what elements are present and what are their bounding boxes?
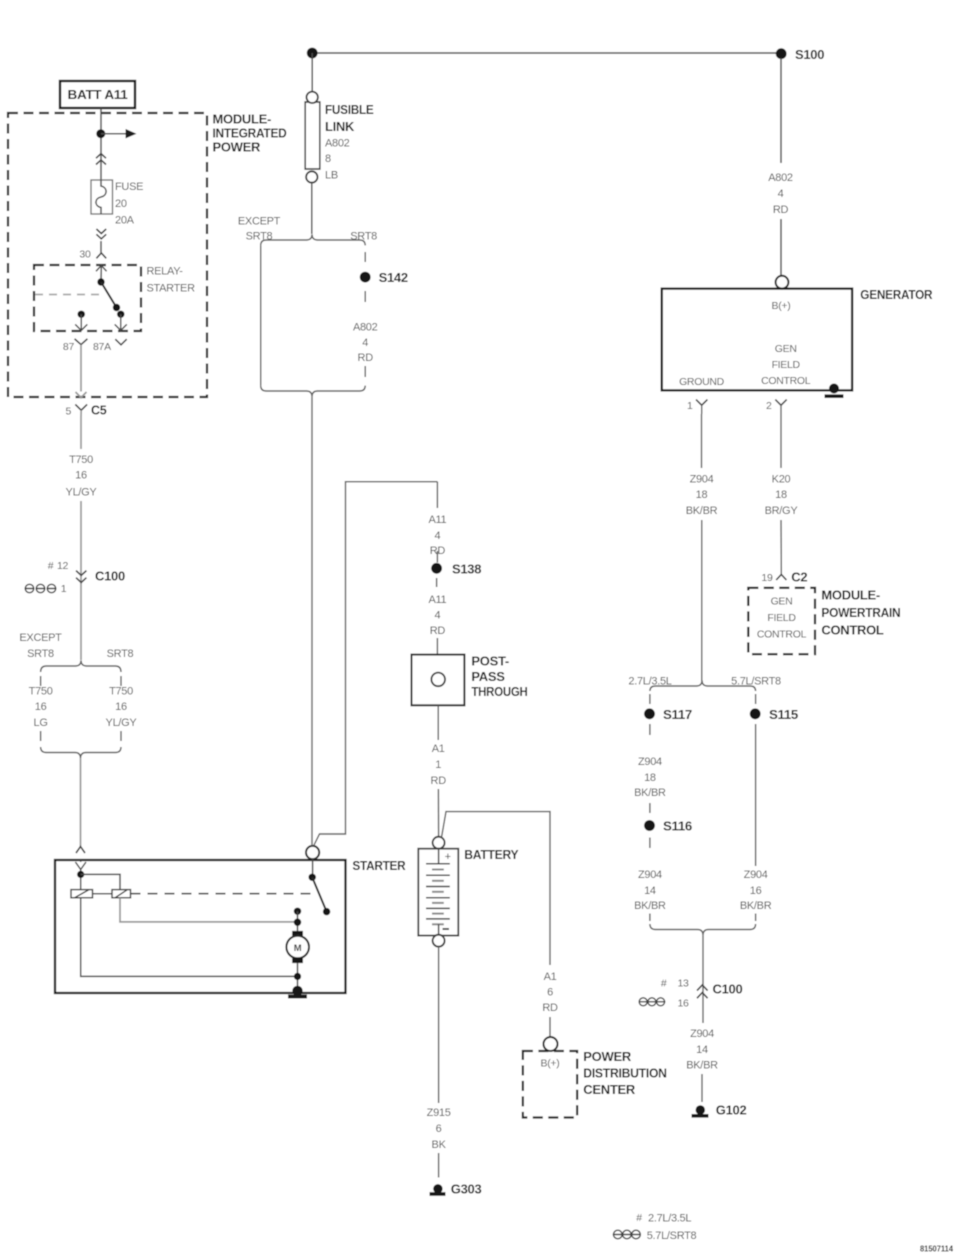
splice S142	[360, 252, 408, 302]
wire Z904 14 BK/BR (left)	[634, 869, 666, 921]
label MODULE-POWERTRAIN CONTROL	[821, 588, 900, 638]
marker ooo pin 16	[639, 998, 689, 1010]
wire A1 1 RD	[431, 705, 447, 836]
label POST-PASS THROUGH	[471, 653, 527, 699]
svg-text:B(+): B(+)	[772, 300, 791, 312]
svg-text:4: 4	[362, 337, 368, 349]
wire: BATT A11 down to fuse	[100, 108, 102, 180]
svg-text:LINK: LINK	[325, 119, 355, 134]
power distribution center dashed box	[523, 1051, 577, 1118]
svg-text:A802: A802	[325, 138, 350, 150]
svg-text:DISTRIBUTION: DISTRIBUTION	[583, 1066, 666, 1081]
svg-text:G303: G303	[451, 1181, 482, 1196]
svg-text:LG: LG	[34, 717, 48, 729]
wire K20 18 BR/GY	[765, 414, 799, 574]
starter switch	[309, 859, 331, 915]
svg-text:A11: A11	[428, 594, 446, 606]
relay contact 87	[75, 311, 87, 331]
label MODULE-INTEGRATED POWER	[213, 112, 287, 155]
label FUSIBLE LINK A802 8 LB	[325, 102, 374, 182]
svg-text:81507114: 81507114	[920, 1244, 953, 1254]
svg-text:6: 6	[547, 987, 553, 999]
wire: battery branch elbow to starter B+	[314, 482, 438, 846]
svg-text:GEN: GEN	[775, 343, 797, 355]
battery box	[418, 849, 458, 936]
svg-text:POST-: POST-	[471, 653, 509, 668]
svg-text:S117: S117	[663, 707, 692, 722]
svg-text:Z904: Z904	[638, 756, 662, 768]
wire: left branch (except SRT8)	[260, 245, 262, 385]
svg-text:BR/GY: BR/GY	[765, 505, 799, 517]
svg-text:Z904: Z904	[690, 474, 714, 486]
svg-text:12: 12	[57, 560, 69, 572]
label 5.7L/SRT8 (right branch)	[731, 676, 781, 688]
svg-text:GROUND: GROUND	[679, 376, 725, 388]
svg-text:20: 20	[115, 198, 127, 210]
svg-text:30: 30	[79, 249, 91, 261]
svg-text:S116: S116	[663, 819, 692, 834]
splice S138	[431, 561, 481, 587]
svg-text:#: #	[661, 978, 667, 990]
module-integrated power dashed box	[8, 113, 207, 397]
svg-text:BK/BR: BK/BR	[686, 505, 718, 517]
svg-text:Z904: Z904	[638, 869, 662, 881]
brace: merge branches	[41, 747, 121, 758]
pin 1 with fork	[687, 400, 707, 414]
svg-text:K20: K20	[772, 474, 791, 486]
motor M	[286, 931, 309, 963]
pin 30 with connector fork	[79, 241, 106, 261]
wire: junction to second winding	[81, 874, 120, 889]
svg-text:#: #	[636, 1212, 642, 1224]
label RELAY-STARTER	[147, 266, 196, 295]
label EXCEPT SRT8 (left)	[238, 216, 281, 243]
svg-text:1: 1	[687, 400, 693, 412]
wire: long feed to starter B+	[311, 397, 313, 846]
wire T750 16 LG (left branch)	[29, 676, 53, 741]
part number	[920, 1244, 953, 1254]
svg-text:18: 18	[775, 489, 787, 501]
relay switch	[96, 266, 120, 312]
brace: merge grounds	[650, 924, 756, 935]
svg-text:14: 14	[696, 1044, 708, 1056]
wire: 87 down to C5 (gray)	[76, 355, 87, 398]
svg-text:SRT8: SRT8	[27, 648, 54, 660]
svg-text:C2: C2	[791, 570, 807, 585]
generator internal ground	[825, 384, 844, 397]
brace: split except-SRT8 / SRT8	[261, 234, 366, 245]
splice S116	[644, 819, 692, 848]
svg-text:5: 5	[65, 406, 71, 418]
svg-text:13: 13	[677, 978, 689, 990]
splice S100	[776, 47, 824, 62]
brace: merge to starter feed	[261, 386, 366, 397]
svg-text:T750: T750	[109, 686, 133, 698]
svg-text:BK/BR: BK/BR	[634, 787, 666, 799]
PDC B+ terminal	[544, 1037, 558, 1051]
svg-text:+: +	[445, 851, 451, 863]
svg-text:19: 19	[761, 572, 773, 584]
connector C2 pin 19	[761, 570, 807, 585]
svg-text:S100: S100	[795, 47, 824, 62]
svg-text:C100: C100	[95, 569, 125, 584]
relay contact 87A	[115, 311, 127, 331]
label GENERATOR	[860, 287, 933, 302]
wire: battery positive to PDC (A1 6 RD)	[442, 812, 558, 1037]
svg-text:CONTROL: CONTROL	[821, 623, 884, 638]
node: junction with feed arrow	[96, 129, 136, 138]
wire T750 16 YL/GY (right branch)	[106, 676, 138, 741]
svg-text:INTEGRATED: INTEGRATED	[213, 126, 287, 141]
svg-text:S142: S142	[379, 270, 408, 285]
svg-text:1: 1	[435, 759, 441, 771]
label SRT8 (right)	[350, 231, 377, 243]
svg-text:87A: 87A	[93, 341, 111, 353]
svg-text:A1: A1	[544, 971, 557, 983]
starter box	[55, 858, 406, 993]
pin 87 label with fork	[63, 339, 87, 355]
svg-text:6: 6	[436, 1123, 442, 1135]
battery negative terminal	[433, 935, 445, 947]
node: junction above fusible link	[307, 48, 318, 59]
svg-text:GEN: GEN	[771, 596, 793, 608]
svg-text:16: 16	[35, 701, 47, 713]
in-line connector chevrons above fuse	[96, 154, 106, 165]
connector C100 with pins 13/16	[661, 978, 743, 999]
svg-text:Z904: Z904	[690, 1028, 714, 1040]
svg-text:M: M	[294, 943, 302, 954]
svg-text:A1: A1	[432, 743, 445, 755]
svg-text:1: 1	[61, 583, 67, 595]
svg-text:BATTERY: BATTERY	[464, 847, 519, 862]
wire Z904 18 BK/BR (gen ground)	[686, 414, 718, 681]
legend marker ooo = 5.7L/SRT8	[613, 1230, 697, 1242]
svg-text:FIELD: FIELD	[772, 359, 801, 371]
svg-text:POWER: POWER	[583, 1049, 632, 1064]
marker ooo pin 1	[25, 583, 67, 595]
pin label GEN FIELD CONTROL	[761, 343, 811, 387]
in-line connector chevrons below fuse	[96, 229, 106, 239]
svg-text:16: 16	[677, 998, 689, 1010]
svg-text:STARTER: STARTER	[147, 283, 196, 295]
svg-text:POWER: POWER	[213, 140, 262, 155]
svg-text:4: 4	[434, 610, 440, 622]
starter ground	[288, 986, 307, 997]
label POWER DISTRIBUTION CENTER	[583, 1049, 666, 1097]
fusible link A802 8 LB	[305, 92, 320, 183]
svg-text:87: 87	[63, 341, 75, 353]
connector C100 with pin 12 / 1	[48, 560, 125, 584]
svg-text:C5: C5	[91, 404, 107, 418]
fuse FUSE 20 20A	[91, 180, 113, 214]
svg-text:B(+): B(+)	[541, 1058, 560, 1070]
battery minus	[439, 924, 449, 935]
svg-text:S138: S138	[452, 561, 481, 576]
svg-text:BK/BR: BK/BR	[686, 1060, 718, 1072]
svg-text:4: 4	[434, 530, 440, 542]
wire Z904 14 BK/BR (to G102)	[686, 1028, 718, 1102]
ground G102	[692, 1103, 747, 1118]
svg-text:14: 14	[644, 885, 656, 897]
legend marker # = 2.7L/3.5L	[636, 1212, 691, 1225]
svg-text:POWERTRAIN: POWERTRAIN	[821, 605, 900, 620]
wire A11 4 RD (lower)	[428, 594, 446, 655]
wire: merged down to starter	[76, 758, 85, 853]
svg-text:A11: A11	[428, 514, 446, 526]
wire: link to split	[311, 183, 313, 234]
module-powertrain control dashed box	[748, 588, 815, 654]
label BATTERY	[464, 847, 519, 862]
svg-text:SRT8: SRT8	[107, 648, 134, 660]
wire: winding 1 down and bottom bus	[81, 898, 298, 977]
svg-text:RD: RD	[773, 204, 789, 216]
svg-text:S115: S115	[769, 707, 798, 722]
label box BATT A11	[60, 81, 135, 108]
label EXCEPT SRT8 (left branch)	[19, 632, 62, 660]
splice S117	[644, 694, 692, 735]
svg-text:8: 8	[325, 153, 331, 165]
wire: winding 2 to motor (gray)	[120, 898, 298, 922]
svg-text:RD: RD	[430, 625, 446, 637]
relay-starter dashed box	[34, 265, 141, 331]
svg-text:CONTROL: CONTROL	[757, 629, 807, 641]
generator B+ terminal	[776, 276, 789, 289]
wire A802 4 RD (S100 to generator)	[768, 58, 793, 276]
wire: junction to fusible link	[311, 53, 313, 92]
pin label B(+)	[772, 300, 791, 312]
svg-text:T750: T750	[29, 686, 53, 698]
svg-text:16: 16	[750, 885, 762, 897]
label SRT8 (right branch)	[107, 648, 134, 660]
svg-text:2: 2	[766, 400, 772, 412]
svg-text:STARTER: STARTER	[352, 858, 406, 873]
svg-text:Z904: Z904	[744, 869, 768, 881]
wire Z904 18 BK/BR (S117-S116)	[634, 756, 666, 813]
wire: top power bus from fusible link feed to S100	[312, 52, 781, 54]
svg-text:4: 4	[778, 188, 784, 200]
svg-text:Z915: Z915	[427, 1107, 451, 1119]
svg-text:MODULE-: MODULE-	[821, 588, 880, 603]
svg-text:A802: A802	[353, 322, 378, 334]
svg-text:FIELD: FIELD	[767, 612, 796, 624]
solenoid winding 2	[112, 890, 131, 898]
pin 87A label with chevron	[93, 339, 127, 353]
wire T750 16 YL/GY	[66, 417, 98, 660]
svg-text:BATT A11: BATT A11	[68, 88, 128, 102]
svg-text:18: 18	[696, 489, 708, 501]
svg-text:YL/GY: YL/GY	[106, 717, 138, 729]
svg-text:CENTER: CENTER	[583, 1082, 636, 1097]
wire: merged to C100	[702, 935, 704, 1023]
label FUSE 20 20A	[115, 181, 143, 227]
svg-text:G102: G102	[716, 1103, 747, 1118]
svg-text:LB: LB	[325, 170, 338, 182]
post-pass through terminal box	[412, 655, 465, 706]
battery positive terminal	[433, 837, 445, 849]
svg-text:EXCEPT: EXCEPT	[238, 216, 281, 228]
svg-text:PASS: PASS	[471, 669, 505, 684]
svg-text:20A: 20A	[115, 215, 135, 227]
svg-text:RELAY-: RELAY-	[147, 266, 184, 278]
pin label GROUND	[679, 376, 725, 388]
svg-text:16: 16	[75, 470, 87, 482]
svg-text:BK/BR: BK/BR	[740, 900, 772, 912]
wire Z915 6 BK	[427, 947, 451, 1178]
svg-text:MODULE-: MODULE-	[213, 112, 272, 127]
starter motor contact	[294, 908, 301, 931]
wire A11 4 RD (upper)	[428, 482, 446, 563]
svg-text:BK: BK	[432, 1139, 447, 1151]
mechanical link (dashed)	[131, 893, 318, 895]
pin 2 with fork	[766, 400, 787, 414]
svg-text:2.7L/3.5L: 2.7L/3.5L	[648, 1213, 691, 1225]
generator box	[662, 289, 852, 391]
connector C5 pin 5	[65, 404, 106, 418]
ground G303	[430, 1181, 482, 1196]
svg-text:T750: T750	[69, 454, 93, 466]
svg-text:5.7L/SRT8: 5.7L/SRT8	[647, 1230, 697, 1242]
label 2.7L/3.5L (left branch)	[628, 676, 671, 688]
brace: split 2.7L / 5.7L	[650, 680, 756, 691]
svg-text:18: 18	[644, 772, 656, 784]
svg-text:FUSE: FUSE	[115, 181, 143, 193]
splice S115	[750, 694, 798, 866]
pin label GEN FIELD CONTROL (PCM)	[757, 596, 807, 641]
svg-text:EXCEPT: EXCEPT	[19, 632, 62, 644]
wire: feed into starter solenoid	[75, 860, 86, 890]
svg-text:BK/BR: BK/BR	[634, 900, 666, 912]
svg-text:RD: RD	[431, 775, 447, 787]
svg-text:RD: RD	[358, 352, 374, 364]
svg-text:THROUGH: THROUGH	[471, 684, 527, 699]
svg-text:RD: RD	[542, 1002, 558, 1014]
svg-text:A802: A802	[768, 172, 793, 184]
wire Z904 16 BK/BR (right)	[740, 869, 772, 921]
wire A802 4 RD (SRT8 branch)	[353, 322, 378, 378]
starter B+ terminal	[306, 846, 319, 859]
svg-text:FUSIBLE: FUSIBLE	[325, 102, 374, 117]
battery plates	[426, 864, 450, 919]
solenoid winding 1	[71, 890, 93, 898]
svg-text:YL/GY: YL/GY	[66, 487, 98, 499]
svg-text:16: 16	[115, 701, 127, 713]
wire: motor to ground	[294, 963, 301, 990]
svg-text:C100: C100	[713, 981, 743, 996]
svg-text:#: #	[48, 560, 54, 572]
svg-text:CONTROL: CONTROL	[761, 375, 811, 387]
wire: link between windings	[93, 893, 113, 895]
brace: split into two branches	[41, 660, 121, 672]
svg-text:GENERATOR: GENERATOR	[860, 287, 933, 302]
